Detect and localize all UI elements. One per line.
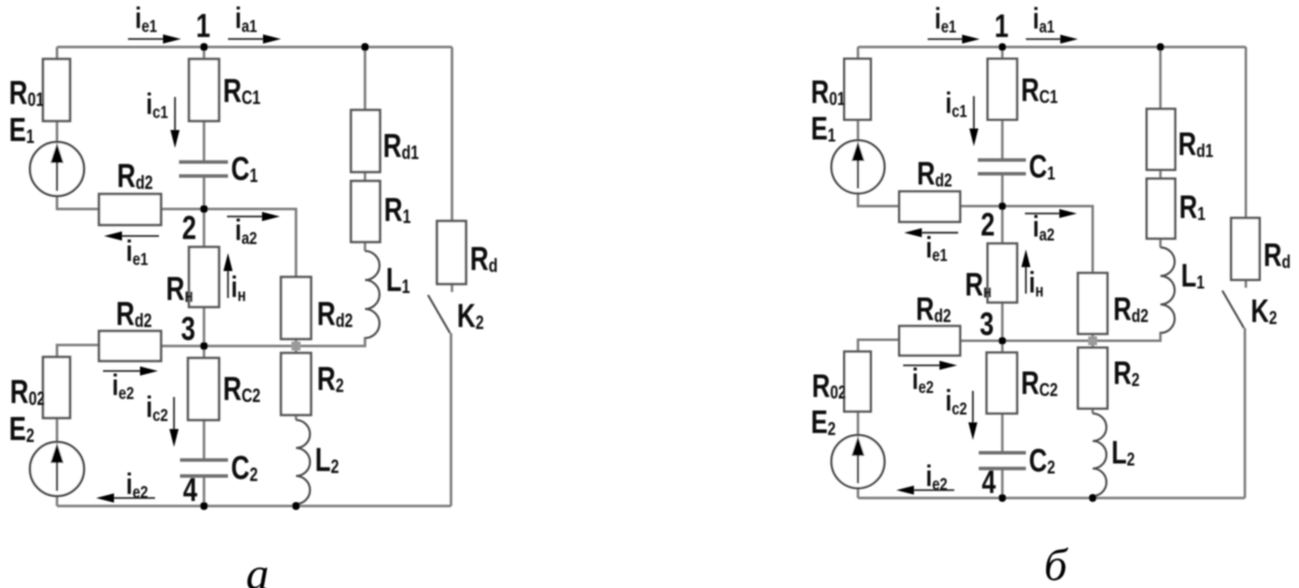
wire Rd2v to R2 junction xyxy=(1091,334,1094,348)
inductor L2 xyxy=(1093,413,1107,496)
current arrow ic2 xyxy=(968,391,977,440)
resistor RC2 xyxy=(987,353,1017,414)
resistor RC1 xyxy=(988,59,1017,120)
resistor R02 xyxy=(844,352,871,412)
wire node3 to RC2 xyxy=(1001,341,1004,353)
capacitor C2 xyxy=(180,460,228,476)
resistor Rd2b xyxy=(899,326,960,355)
svg-text:4: 4 xyxy=(982,465,996,501)
wire RC1 to C1 xyxy=(203,121,206,162)
source E1 xyxy=(30,142,84,196)
wire Rd2a to node2 and down xyxy=(161,209,296,277)
wire R2 to L2 xyxy=(295,415,298,420)
resistor Rd xyxy=(437,221,466,284)
wire top rail node1 xyxy=(858,46,1246,49)
resistor R01 xyxy=(43,59,70,121)
wire bottom rail xyxy=(57,505,451,508)
switch K2 blade xyxy=(1222,291,1244,328)
node dot L2 bottom xyxy=(292,502,300,510)
svg-text:2: 2 xyxy=(981,208,995,244)
node 3 dot xyxy=(200,342,208,350)
current arrow ia2 xyxy=(227,212,280,221)
wire R01 to E1 xyxy=(56,121,59,142)
current arrow ie2 mid xyxy=(903,361,957,370)
current arrow ie1 return xyxy=(104,231,159,240)
node 2 dot xyxy=(200,205,208,213)
wire R01 top stub xyxy=(857,47,860,59)
resistor Rd2a xyxy=(899,191,960,221)
inductor L1 xyxy=(1160,247,1174,332)
wire RC2 to C2 xyxy=(1001,413,1004,452)
wire top rail node1 xyxy=(57,46,452,49)
wire Rd2v to R2 junction xyxy=(295,339,298,353)
wire RC1 to C1 xyxy=(1001,120,1004,160)
switch K2 blade xyxy=(428,295,450,333)
wire Rd1 to R1 xyxy=(364,172,367,181)
resistor RC1 xyxy=(189,59,219,121)
current arrow ia1 top xyxy=(1026,35,1078,44)
svg-text:б: б xyxy=(1044,539,1069,588)
wire R2 to L2 xyxy=(1091,409,1094,414)
resistor Rd2b xyxy=(99,331,161,361)
svg-text:2: 2 xyxy=(182,210,196,247)
wire R01 top stub xyxy=(56,47,59,59)
node 2 dot xyxy=(998,202,1006,210)
resistor R1 xyxy=(351,181,380,242)
wire R02 to E2 xyxy=(56,418,59,442)
wire node1a to Rd1 xyxy=(364,47,367,110)
current arrow ic1 xyxy=(170,97,179,148)
current arrow ic1 xyxy=(969,96,978,146)
wire E1 to Rd2a xyxy=(57,196,99,209)
wire switch to bottom rail xyxy=(1244,328,1247,498)
wire top rail to Rd xyxy=(1245,47,1248,218)
resistor Rn xyxy=(189,247,219,307)
capacitor C1 xyxy=(179,162,228,176)
capacitor C1 xyxy=(978,160,1026,174)
wire top rail to Rd xyxy=(451,47,454,221)
wire Rd to switch xyxy=(1245,280,1248,288)
node 4 dot xyxy=(200,502,208,510)
node 4 dot xyxy=(998,494,1006,502)
wire Rd2a to node2 and down xyxy=(960,206,1093,273)
wire E2 to bottom rail xyxy=(56,496,59,506)
node 1 dot xyxy=(998,43,1006,51)
wire bottom rail xyxy=(858,497,1245,500)
wire R02 to E2 xyxy=(857,412,860,436)
inductor L1 xyxy=(365,251,380,338)
wire C2 to node4 xyxy=(203,476,206,506)
resistor R01 xyxy=(844,59,871,120)
wire E2 to Rd2b xyxy=(57,345,99,357)
wire E2 to Rd2b xyxy=(858,340,899,352)
current arrow ie2 bottom xyxy=(96,493,155,502)
node 3 dot xyxy=(998,337,1006,345)
resistor R2 xyxy=(1078,348,1107,409)
circuit b (right) xyxy=(811,2,1291,502)
wire C1 to node2 xyxy=(203,176,206,209)
current arrow ia1 top xyxy=(228,34,281,43)
wire R1 to L1 xyxy=(364,242,367,251)
wire Rd to switch xyxy=(451,284,454,292)
resistor Rd2v xyxy=(281,277,311,339)
resistor Rd1 xyxy=(351,110,380,172)
svg-text:3: 3 xyxy=(181,311,195,348)
source E1 xyxy=(831,140,884,193)
node dot L2 bottom xyxy=(1089,494,1097,502)
wire Rn to node3 xyxy=(203,307,206,346)
source E2 xyxy=(831,435,884,488)
current arrow ie1 top xyxy=(128,34,181,43)
current arrow in xyxy=(223,253,232,298)
wire R1 to L1 xyxy=(1159,239,1162,248)
wire Rn to node3 xyxy=(1001,302,1004,340)
wire node1 to RC1 xyxy=(1001,47,1004,59)
wire node1a to Rd1 xyxy=(1159,47,1162,109)
resistor R02 xyxy=(43,357,70,418)
node dot top-right branch xyxy=(361,43,369,51)
current arrow ie1 return xyxy=(904,228,958,237)
current arrow in xyxy=(1021,249,1030,293)
resistor Rd2a xyxy=(99,194,161,225)
resistor Rd xyxy=(1231,218,1259,280)
resistor Rd2v xyxy=(1078,273,1107,334)
capacitor C2 xyxy=(979,453,1026,469)
wire Rd1 to R1 xyxy=(1159,170,1162,179)
wire E2 to bottom rail xyxy=(857,488,860,498)
svg-text:1: 1 xyxy=(196,8,210,45)
junction Rd2v-R2 cross xyxy=(1088,336,1097,345)
resistor R2 xyxy=(281,353,311,415)
node dot top-right branch xyxy=(1157,43,1165,51)
current arrow ie1 top xyxy=(928,35,980,44)
circuit a (left) xyxy=(9,1,498,510)
wire C2 to node4 xyxy=(1001,468,1004,497)
junction Rd2v-R2 cross xyxy=(292,342,301,351)
resistor Rd1 xyxy=(1147,109,1175,170)
svg-text:а: а xyxy=(246,548,269,588)
wire node1 to RC1 xyxy=(203,47,206,59)
source E2 xyxy=(30,442,84,496)
current arrow ia2 xyxy=(1025,209,1077,218)
inductor L2 xyxy=(296,420,310,504)
node 1 dot xyxy=(200,43,208,51)
wire node2 to Rn xyxy=(203,209,206,247)
current arrow ie2 mid xyxy=(103,366,158,375)
wire node3 to RC2 xyxy=(203,346,206,358)
wire E1 to Rd2a xyxy=(858,193,899,206)
wire node3 rail to L1 xyxy=(960,332,1160,341)
wire RC2 to C2 xyxy=(203,420,206,460)
resistor RC2 xyxy=(188,358,219,420)
resistor Rn xyxy=(988,243,1017,302)
wire node3 rail to L1 xyxy=(161,337,365,346)
svg-text:4: 4 xyxy=(183,472,198,509)
wire node2 to Rn xyxy=(1001,206,1004,243)
wire R01 to E1 xyxy=(857,120,860,141)
svg-text:3: 3 xyxy=(980,307,994,343)
svg-text:1: 1 xyxy=(994,9,1008,45)
current arrow ie2 bottom xyxy=(896,486,954,495)
resistor R1 xyxy=(1147,179,1175,239)
wire switch to bottom rail xyxy=(450,333,453,506)
wire C1 to node2 xyxy=(1001,174,1004,206)
current arrow ic2 xyxy=(169,397,178,447)
